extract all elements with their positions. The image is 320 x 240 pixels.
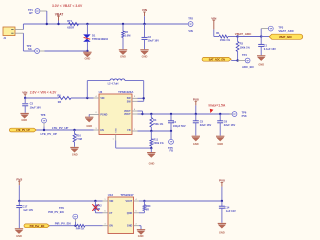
svg-text:GND: GND <box>120 55 126 59</box>
svg-text:VIN: VIN <box>109 200 113 203</box>
svg-text:VIN: VIN <box>100 97 104 100</box>
junction: inductor riser <box>86 97 88 99</box>
wire: VIN rail <box>25 97 58 99</box>
wire: U13 GND to ground <box>139 226 141 230</box>
capacitor C5 <box>193 114 212 136</box>
global label LTE_PV_UP <box>9 128 36 132</box>
svg-text:GND: GND <box>149 161 155 165</box>
op IC U3 TPS61023 body <box>99 90 134 135</box>
resistor RT1 <box>67 19 78 29</box>
svg-text:GND: GND <box>217 142 223 146</box>
power flag VIN (boost) and note <box>22 90 57 98</box>
svg-text:TP8: TP8 <box>41 113 46 117</box>
wire: VBAT rail <box>23 23 188 25</box>
junction: PV8 bottom node <box>18 200 20 202</box>
svg-text:GND: GND <box>16 234 22 238</box>
ground under D1 <box>83 52 91 60</box>
svg-text:2: 2 <box>136 224 137 226</box>
svg-text:GND: GND <box>86 124 92 128</box>
wire: VOUT rail out <box>139 200 222 202</box>
svg-text:GND: GND <box>258 62 264 66</box>
global label BAT_ADC_EN <box>202 57 231 61</box>
svg-text:QOD: QOD <box>127 212 133 215</box>
svg-text:GND: GND <box>219 230 225 234</box>
svg-text:Imax=1.5A: Imax=1.5A <box>209 104 226 108</box>
junction: AGND/R11 <box>150 147 152 149</box>
resistor R4 <box>150 114 164 131</box>
svg-text:GND: GND <box>127 225 133 228</box>
svg-text:3.0V < VBAT < 3.6V: 3.0V < VBAT < 3.6V <box>52 4 83 8</box>
svg-text:0R: 0R <box>97 208 100 211</box>
svg-text:U3: U3 <box>99 90 103 94</box>
U3 pin VOUT lines <box>132 109 138 114</box>
junction: VBAT_ADC node <box>236 35 238 37</box>
svg-text:R6: R6 <box>57 94 61 98</box>
junction: PV8 flag/C5 <box>195 113 197 115</box>
svg-text:6: 6 <box>105 211 106 213</box>
svg-text:22uF 16V: 22uF 16V <box>200 123 212 127</box>
wire: J1 pin2 to SG <box>23 33 34 51</box>
ground under R11 <box>147 148 155 165</box>
wire: CT net <box>95 212 102 214</box>
svg-text:4: 4 <box>136 198 137 201</box>
junction: C6 tap <box>219 113 221 115</box>
resistor R1 <box>216 31 231 42</box>
svg-text:PIR_Pwr_EN: PIR_Pwr_EN <box>30 225 45 228</box>
svg-text:7.5M: 7.5M <box>76 137 82 141</box>
ground under R10 <box>70 147 78 156</box>
ground under C5 <box>192 136 200 146</box>
junction: VOUT merge <box>141 113 143 115</box>
svg-text:10uF 16V: 10uF 16V <box>148 39 160 43</box>
wire: TP1 stub <box>40 11 47 24</box>
resistor R6 <box>57 94 71 104</box>
power flag VIN (divider) <box>211 16 217 36</box>
ground under C3 <box>20 113 28 122</box>
resistor R60 <box>143 201 151 213</box>
svg-text:2: 2 <box>96 112 97 114</box>
wire: SG to ground node <box>40 50 88 52</box>
junction: TP1 on VBAT rail <box>46 23 48 25</box>
capacitor C2 <box>142 24 160 49</box>
svg-text:TP4: TP4 <box>242 53 247 57</box>
resistor R10 <box>73 130 82 147</box>
svg-text:22uF 16V: 22uF 16V <box>224 123 236 127</box>
svg-text:150k 1%: 150k 1% <box>220 38 231 42</box>
svg-text:GND: GND <box>116 128 118 133</box>
test point TP5 <box>168 139 173 152</box>
svg-text:4: 4 <box>96 95 97 98</box>
test point TP1 <box>28 8 40 15</box>
svg-text:LTE_PV_UP: LTE_PV_UP <box>52 126 68 130</box>
svg-text:3: 3 <box>96 128 97 130</box>
wire: FB to TP5 <box>170 131 172 139</box>
svg-text:BAT_ADC_EN: BAT_ADC_EN <box>209 58 225 61</box>
resistor R11 <box>150 131 164 148</box>
svg-text:R2: R2 <box>125 30 129 34</box>
svg-text:5: 5 <box>134 96 135 98</box>
inductor L2 <box>87 79 143 98</box>
svg-text:TPS22917: TPS22917 <box>120 193 134 197</box>
U3 pin SW lines <box>132 96 138 101</box>
wire: node to label <box>261 36 269 38</box>
svg-text:LTE_PV_UP: LTE_PV_UP <box>41 132 57 136</box>
capacitor C6 <box>217 114 235 136</box>
junction: C2 tap <box>143 23 145 25</box>
wire: node to C1 junction <box>238 36 262 38</box>
svg-text:R3: R3 <box>240 42 244 46</box>
capacitor C3 <box>22 98 41 113</box>
junction: R3 bottom <box>236 59 238 61</box>
resistor R42 (DNP) <box>92 201 102 213</box>
wire: VOUT merge <box>138 111 143 114</box>
svg-text:EN: EN <box>100 129 104 132</box>
wire: ON rail <box>50 225 78 227</box>
svg-text:0R: 0R <box>146 208 149 211</box>
junction: R4 top <box>150 113 152 115</box>
test point TP2 SG <box>27 44 40 53</box>
wire: PV8 rail <box>143 113 233 115</box>
svg-text:FB: FB <box>127 129 130 132</box>
junction: C1 tap <box>260 35 262 37</box>
net name VBAT_ADC <box>235 32 252 36</box>
svg-text:LTE_PV_UP: LTE_PV_UP <box>16 129 30 132</box>
svg-text:VOUT: VOUT <box>126 200 133 203</box>
wire: to TP4 <box>238 60 246 62</box>
junction: VIN node <box>24 97 26 99</box>
svg-text:C1: C1 <box>264 43 268 47</box>
svg-text:BT: BT <box>29 11 33 15</box>
ground under C2 <box>140 50 148 59</box>
note: Imax and current marker <box>209 104 226 113</box>
wire: D1 branch lower <box>86 42 88 51</box>
junction: R2 tap <box>122 23 124 25</box>
svg-text:FB: FB <box>170 149 174 153</box>
test point TP2 VIN end <box>188 17 193 33</box>
svg-text:ON: ON <box>109 225 113 228</box>
svg-text:0R: 0R <box>58 100 61 104</box>
svg-text:R4: R4 <box>153 118 157 122</box>
svg-text:10uF 16V: 10uF 16V <box>30 105 42 109</box>
junction: C14 node <box>221 200 223 202</box>
svg-text:GND: GND <box>21 118 27 122</box>
svg-text:C14: C14 <box>225 206 230 210</box>
junction: TP9 tap <box>74 225 76 227</box>
ground under R2 <box>119 50 127 59</box>
svg-text:C3: C3 <box>30 102 34 106</box>
U3 pin EN line <box>94 128 100 130</box>
svg-text:6: 6 <box>134 109 135 111</box>
svg-text:0.1uF 16V: 0.1uF 16V <box>264 47 276 51</box>
svg-text:GND: GND <box>193 142 199 146</box>
svg-text:PV8: PV8 <box>242 114 247 118</box>
test point TP6 <box>230 111 248 119</box>
svg-text:3: 3 <box>105 224 106 226</box>
ground under C17 <box>15 229 23 238</box>
svg-text:L2 4.7uH: L2 4.7uH <box>108 81 119 85</box>
svg-text:R44 1K: R44 1K <box>76 228 85 231</box>
capacitor C14 <box>219 201 236 223</box>
wire: label to TP4 <box>231 60 237 62</box>
junction: D1/SG ground node <box>86 50 88 52</box>
svg-text:62OR: 62OR <box>67 25 74 29</box>
svg-text:GND: GND <box>72 152 78 156</box>
svg-text:1.0M: 1.0M <box>125 33 131 37</box>
TVS diode D1 TPD1E10B04 <box>83 34 108 42</box>
U13 pin names <box>109 200 133 228</box>
svg-text:CT: CT <box>109 212 113 215</box>
svg-text:TP2: TP2 <box>188 17 193 21</box>
svg-text:VOUT: VOUT <box>124 113 131 116</box>
svg-text:D1: D1 <box>92 34 96 38</box>
junction: D1 tap <box>86 23 88 25</box>
svg-text:U13: U13 <box>108 193 114 197</box>
svg-text:VBAT_ADC: VBAT_ADC <box>278 29 294 33</box>
svg-text:100k 1%: 100k 1% <box>240 46 251 50</box>
svg-text:VIN: VIN <box>188 29 192 33</box>
U3 pin AGND line <box>113 135 116 142</box>
svg-text:ADC_EN: ADC_EN <box>242 65 254 69</box>
capacitor C4 feed-forward <box>168 114 186 131</box>
junction: C4 top <box>170 113 172 115</box>
power flag VIN (top) <box>142 8 148 24</box>
ground at PGND <box>85 117 93 128</box>
J1 pin 1 stub <box>15 29 23 31</box>
svg-text:RT1: RT1 <box>67 19 72 23</box>
svg-text:1uF 10V: 1uF 10V <box>23 208 33 212</box>
svg-text:GND: GND <box>138 234 144 238</box>
wire: VIN to R1 <box>214 36 219 38</box>
svg-text:C4: C4 <box>173 120 177 124</box>
junction: FB node <box>150 130 152 132</box>
svg-text:R10: R10 <box>76 134 81 138</box>
svg-text:100pF 50V: 100pF 50V <box>173 124 186 128</box>
wire: QOD net <box>139 212 144 214</box>
junction: R42 tap <box>94 200 96 202</box>
svg-text:2.6V < VIN < 4.2V: 2.6V < VIN < 4.2V <box>30 90 57 94</box>
wire: R1 to node <box>228 36 238 38</box>
resistor R3 <box>236 37 250 61</box>
ground under U13 <box>137 230 145 238</box>
wire: AGND net <box>116 141 152 149</box>
U3 pin FB line <box>132 129 138 131</box>
ground under C6 <box>216 136 224 146</box>
svg-text:GND: GND <box>142 55 148 59</box>
wire: R6 to VIN pin <box>71 97 94 99</box>
svg-text:1: 1 <box>105 199 106 201</box>
power flag PV8 (output) <box>219 179 225 201</box>
U13 pin lines left <box>103 199 109 226</box>
junction: VBAT flag <box>57 23 59 25</box>
junction: VOUT/R60 <box>143 200 145 202</box>
resistor R44 <box>76 224 103 230</box>
junction: C4/FB <box>170 130 172 132</box>
note: battery voltage range <box>52 4 83 8</box>
global label VBAT_ADC <box>269 34 303 39</box>
wire: SW riser <box>138 81 144 102</box>
resistor R2 <box>122 24 131 49</box>
svg-text:SG: SG <box>28 47 32 51</box>
svg-text:VBAT_ADC: VBAT_ADC <box>235 32 252 36</box>
load switch U13 TPS22917 body <box>108 193 134 233</box>
ground under C14 <box>218 223 226 234</box>
U13 pin lines right <box>134 198 140 226</box>
ground under C1 <box>257 56 265 67</box>
junction: SW riser <box>143 97 145 99</box>
svg-text:7: 7 <box>113 139 114 141</box>
U3 pin names <box>100 97 131 133</box>
svg-text:R1: R1 <box>216 31 220 35</box>
wire: bottom rail <box>19 200 102 202</box>
J1 pin 2 stub <box>15 32 23 34</box>
svg-text:PIR_PV_EN: PIR_PV_EN <box>48 210 63 214</box>
capacitor C17 <box>16 201 33 228</box>
net text LTE_PV_UP below <box>41 132 57 136</box>
junction: TP8 on EN rail <box>43 129 45 131</box>
net text PIR_PV_EN <box>55 222 71 226</box>
global label PIR_PV_EN <box>24 224 50 228</box>
U3 pin PGND <box>89 112 99 116</box>
connector J1 <box>3 27 15 40</box>
svg-text:1: 1 <box>134 129 135 131</box>
capacitor C1 <box>258 37 276 56</box>
test point TP4 <box>242 53 254 69</box>
svg-text:TPD1E10B04: TPD1E10B04 <box>92 37 109 41</box>
wire: D1 branch upper <box>86 24 88 34</box>
power flag PV8 (boost out) <box>193 97 199 114</box>
svg-text:5: 5 <box>136 211 137 213</box>
svg-text:TP6: TP6 <box>242 111 247 115</box>
net text LTE_PV_UP above <box>52 126 68 130</box>
test point TP3 <box>261 26 295 37</box>
svg-text:PIR_PV_EN: PIR_PV_EN <box>55 222 71 226</box>
svg-text:TPS61023A: TPS61023A <box>118 90 133 94</box>
svg-text:750k 1%: 750k 1% <box>153 122 164 126</box>
test point TP9 <box>48 206 77 226</box>
power flag VBAT <box>55 12 63 24</box>
power flag PV8 (switch in) <box>16 177 22 201</box>
U3 pin VIN line <box>94 95 100 98</box>
svg-text:C2: C2 <box>148 35 152 39</box>
svg-text:VBAT_ADC: VBAT_ADC <box>279 36 292 39</box>
wire: EN rail <box>36 129 93 131</box>
svg-text:PGND: PGND <box>100 113 107 116</box>
junction: R10 tap <box>73 129 75 131</box>
svg-text:200k 1%: 200k 1% <box>153 141 164 145</box>
svg-text:R11: R11 <box>153 137 158 141</box>
svg-text:GND: GND <box>85 57 91 61</box>
wire: FB net <box>138 130 172 132</box>
svg-text:1uF 10V: 1uF 10V <box>226 209 236 213</box>
test point TP8 <box>41 113 47 130</box>
wire: J1 pin1 riser to VBAT rail <box>22 24 24 30</box>
